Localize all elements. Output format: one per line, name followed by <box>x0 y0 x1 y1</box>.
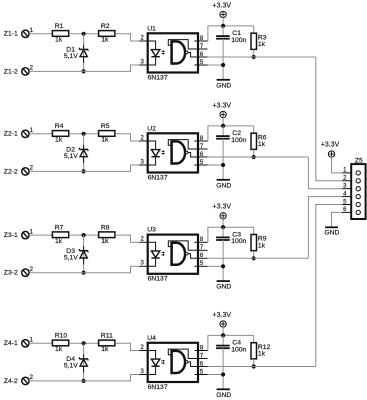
resistor R3 <box>251 26 267 57</box>
svg-text:+3.3V: +3.3V <box>213 204 232 211</box>
U1 pin 7 <box>198 44 208 50</box>
wire U4 pin 5 to GND net <box>208 374 224 376</box>
wire R2 to U1 pin 2 <box>115 34 139 41</box>
svg-text:Z5: Z5 <box>355 158 363 165</box>
Z5 pin 5 <box>342 199 360 206</box>
svg-text:5,1V: 5,1V <box>64 53 78 60</box>
junction GND net channel 1 <box>221 63 225 67</box>
junction D4/Z4-2 <box>82 379 86 383</box>
terminal Z2-2 <box>4 166 34 176</box>
U2 pin 2 <box>139 135 148 141</box>
svg-text:1k: 1k <box>258 351 266 358</box>
resistor R2 <box>99 23 115 44</box>
svg-text:+3.3V: +3.3V <box>213 102 232 109</box>
svg-text:100n: 100n <box>231 346 246 353</box>
svg-text:GND: GND <box>216 284 231 291</box>
wire R7 to R8 <box>69 234 99 236</box>
U4 internal LED <box>148 351 165 375</box>
svg-text:1: 1 <box>30 229 34 235</box>
wire output channel 2 <box>208 156 309 158</box>
svg-text:2: 2 <box>30 267 34 273</box>
wire channel 1 output to Z5 pin 2 <box>316 57 342 181</box>
terminal Z4-1 <box>4 338 34 348</box>
ground at Z5 <box>324 227 339 236</box>
wire D4 branch <box>83 343 85 381</box>
junction GND net channel 4 <box>221 372 225 376</box>
wire output channel 1 <box>208 56 316 58</box>
wire Z3-1 to R7 <box>29 234 52 236</box>
svg-text:R10: R10 <box>55 333 68 340</box>
+3.3V supply channel 3 <box>213 204 232 228</box>
terminal Z3-1 <box>4 229 34 239</box>
svg-text:Z3-1: Z3-1 <box>4 232 18 239</box>
wire channel 3 output to Z5 pin 4 <box>308 197 342 259</box>
resistor R4 <box>52 123 68 144</box>
svg-text:R8: R8 <box>101 225 110 232</box>
wire Z3-2 to U3 pin 3 <box>29 266 139 272</box>
connector Z5 body <box>351 158 365 219</box>
svg-text:1: 1 <box>30 28 34 34</box>
svg-text:+3.3V: +3.3V <box>213 2 232 9</box>
wire +3.3V rail channel 4 <box>208 335 254 350</box>
svg-text:1k: 1k <box>55 137 63 144</box>
svg-text:+3.3V: +3.3V <box>213 312 232 319</box>
wire +3.3V rail channel 2 <box>208 126 254 141</box>
svg-text:R4: R4 <box>55 123 64 130</box>
wire channel 2 output to Z5 pin 3 <box>308 157 342 189</box>
junction R6/output channel 2 <box>252 155 256 159</box>
svg-text:GND: GND <box>324 230 339 237</box>
svg-text:U2: U2 <box>147 125 156 132</box>
capacitor C1 <box>216 26 246 80</box>
U3 pin 5 <box>194 261 207 267</box>
wire D1 branch <box>83 34 85 72</box>
opto-coupler U3 body <box>147 227 198 283</box>
wire +3.3V rail channel 1 <box>208 26 254 41</box>
U4 pin 3 <box>139 369 148 375</box>
wire output channel 3 <box>208 257 309 259</box>
svg-text:Z4-2: Z4-2 <box>4 378 18 385</box>
svg-text:2: 2 <box>140 35 144 41</box>
opto-coupler U2 body <box>147 125 198 181</box>
Z5 pin 6 <box>342 207 360 214</box>
Z5 pin 4 <box>342 191 360 198</box>
U2 internal gate <box>168 140 198 164</box>
U4 pin 5 <box>194 369 207 375</box>
svg-text:2: 2 <box>140 135 144 141</box>
U3 pin 6 <box>198 253 208 259</box>
terminal Z3-2 <box>4 267 34 277</box>
zener diode D2 <box>64 145 88 163</box>
svg-text:1k: 1k <box>55 37 63 44</box>
svg-text:GND: GND <box>216 82 231 89</box>
U3 pin 2 <box>139 237 148 243</box>
U2 pin 8 <box>194 136 207 142</box>
U4 pin 8 <box>194 345 207 351</box>
opto-coupler U4 body <box>147 335 198 391</box>
svg-text:2: 2 <box>140 237 144 243</box>
+3.3V supply channel 4 <box>213 312 232 336</box>
svg-text:1k: 1k <box>55 346 63 353</box>
svg-text:Z2-2: Z2-2 <box>4 168 18 175</box>
terminal Z4-2 <box>4 375 34 385</box>
wire R4 to R5 <box>69 133 99 135</box>
wire D2 branch <box>83 134 85 172</box>
U2 pin 7 <box>198 144 208 150</box>
ground channel 3 <box>216 281 231 291</box>
junction D2/Z2-2 <box>82 169 86 173</box>
svg-text:5,1V: 5,1V <box>64 153 78 160</box>
U4 internal gate <box>168 349 198 373</box>
U3 pin 8 <box>194 237 207 243</box>
svg-text:3: 3 <box>140 261 144 267</box>
U1 internal gate <box>168 40 198 64</box>
svg-text:100n: 100n <box>231 137 246 144</box>
svg-text:GND: GND <box>216 182 231 189</box>
capacitor C4 <box>216 335 246 389</box>
junction +3.3V rail channel 3 <box>221 225 225 229</box>
svg-text:U4: U4 <box>147 335 156 342</box>
junction +3.3V rail channel 2 <box>221 124 225 128</box>
svg-text:2: 2 <box>30 66 34 72</box>
wire Z4-1 to R10 <box>29 342 52 344</box>
svg-text:6N137: 6N137 <box>148 174 168 181</box>
junction R9/output channel 3 <box>252 256 256 260</box>
svg-text:1k: 1k <box>258 141 266 148</box>
wire U3 pin 5 to GND net <box>208 265 224 267</box>
U3 pin 7 <box>198 245 208 251</box>
ground channel 2 <box>216 180 231 190</box>
junction R12/output channel 4 <box>252 364 256 368</box>
junction GND net channel 3 <box>221 264 225 268</box>
wire +3.3V to Z5 pin 1 <box>332 157 343 173</box>
U2 pin 5 <box>194 160 207 166</box>
wire channel 4 output to Z5 pin 5 <box>316 205 342 367</box>
wire +3.3V rail channel 3 <box>208 227 254 242</box>
svg-text:5,1V: 5,1V <box>64 363 78 370</box>
Z5 pin 3 <box>342 184 360 191</box>
+3.3V supply at Z5 <box>321 142 340 158</box>
resistor R9 <box>251 227 267 258</box>
opto-coupler U1 body <box>147 25 198 81</box>
wire Z5 pin 6 to ground <box>332 212 343 226</box>
terminal Z2-1 <box>4 128 34 138</box>
Z5 pin 2 <box>342 176 360 183</box>
svg-text:Z1-1: Z1-1 <box>4 31 18 38</box>
wire Z1-1 to R1 <box>29 33 52 35</box>
U1 pin 8 <box>194 36 207 42</box>
svg-text:6N137: 6N137 <box>148 276 168 283</box>
svg-text:1k: 1k <box>258 242 266 249</box>
resistor R1 <box>52 23 68 44</box>
svg-text:2: 2 <box>30 375 34 381</box>
wire Z2-2 to U2 pin 3 <box>29 165 139 171</box>
svg-text:1: 1 <box>30 128 34 134</box>
U3 internal LED <box>148 242 165 266</box>
resistor R7 <box>52 225 68 246</box>
U1 internal LED <box>148 41 165 65</box>
svg-text:5,1V: 5,1V <box>64 254 78 261</box>
U4 pin 6 <box>198 361 208 367</box>
U4 pin 7 <box>198 353 208 359</box>
wire R11 to U4 pin 2 <box>115 343 139 350</box>
junction +3.3V rail channel 1 <box>221 24 225 28</box>
resistor R11 <box>99 333 115 354</box>
capacitor C2 <box>216 126 246 179</box>
U3 internal gate <box>168 241 198 265</box>
wire Z1-2 to U1 pin 3 <box>29 65 139 71</box>
junction D1/Z1-2 <box>82 69 86 73</box>
svg-text:U1: U1 <box>147 25 156 32</box>
resistor R5 <box>99 123 115 144</box>
U1 pin 5 <box>194 60 207 66</box>
terminal Z1-2 <box>4 66 34 76</box>
wire U1 pin 5 to GND net <box>208 64 224 66</box>
svg-text:2: 2 <box>140 345 144 351</box>
resistor R6 <box>251 126 267 157</box>
junction D3/Z3-2 <box>82 271 86 275</box>
wire R8 to U3 pin 2 <box>115 235 139 242</box>
svg-text:Z3-2: Z3-2 <box>4 270 18 277</box>
junction R10/R11/D4 <box>82 341 86 345</box>
wire output channel 4 <box>208 366 316 368</box>
capacitor C3 <box>216 227 246 281</box>
svg-text:Z4-1: Z4-1 <box>4 340 18 347</box>
svg-text:100n: 100n <box>231 238 246 245</box>
wire Z4-2 to U4 pin 3 <box>29 375 139 381</box>
svg-text:R2: R2 <box>101 23 110 30</box>
svg-text:1k: 1k <box>101 238 109 245</box>
junction R1/R2/D1 <box>82 32 86 36</box>
U4 pin 2 <box>139 345 148 351</box>
U1 pin 3 <box>139 59 148 65</box>
wire U2 pin 5 to GND net <box>208 164 224 166</box>
svg-text:1k: 1k <box>101 137 109 144</box>
junction R7/R8/D3 <box>82 233 86 237</box>
resistor R8 <box>99 225 115 246</box>
resistor R10 <box>52 333 68 354</box>
+3.3V supply channel 1 <box>213 2 232 26</box>
svg-text:Z1-2: Z1-2 <box>4 68 18 75</box>
svg-text:GND: GND <box>216 392 231 399</box>
zener diode D4 <box>64 354 88 372</box>
terminal Z1-1 <box>4 28 34 38</box>
svg-text:R11: R11 <box>101 333 113 340</box>
zener diode D3 <box>64 246 88 264</box>
svg-text:Z2-1: Z2-1 <box>4 131 18 138</box>
svg-text:U3: U3 <box>147 227 156 234</box>
U1 pin 2 <box>139 35 148 41</box>
wire R1 to R2 <box>69 33 99 35</box>
svg-text:1: 1 <box>30 338 34 344</box>
svg-text:R7: R7 <box>55 225 64 232</box>
U1 pin 6 <box>198 52 208 58</box>
zener diode D1 <box>64 45 88 63</box>
junction GND net channel 2 <box>221 163 225 167</box>
junction R3/output channel 1 <box>252 55 256 59</box>
Z5 pin 1 <box>342 168 360 175</box>
svg-text:3: 3 <box>140 369 144 375</box>
svg-text:1k: 1k <box>101 346 109 353</box>
wire D3 branch <box>83 235 85 273</box>
svg-text:3: 3 <box>140 59 144 65</box>
svg-text:1k: 1k <box>101 37 109 44</box>
junction R4/R5/D2 <box>82 132 86 136</box>
svg-text:R1: R1 <box>55 23 64 30</box>
svg-text:1k: 1k <box>258 41 266 48</box>
svg-text:100n: 100n <box>231 37 246 44</box>
svg-text:1k: 1k <box>55 238 63 245</box>
svg-text:+3.3V: +3.3V <box>321 142 340 149</box>
ground channel 4 <box>216 389 231 399</box>
ground channel 1 <box>216 80 231 90</box>
+3.3V supply channel 2 <box>213 102 232 126</box>
svg-text:2: 2 <box>30 166 34 172</box>
U2 pin 3 <box>139 159 148 165</box>
svg-text:6N137: 6N137 <box>148 384 168 391</box>
wire R5 to U2 pin 2 <box>115 134 139 141</box>
wire Z2-1 to R4 <box>29 133 52 135</box>
junction +3.3V rail channel 4 <box>221 333 225 337</box>
U2 internal LED <box>148 141 165 165</box>
U3 pin 3 <box>139 261 148 267</box>
svg-text:R5: R5 <box>101 123 110 130</box>
svg-text:6N137: 6N137 <box>148 74 168 81</box>
wire R10 to R11 <box>69 342 99 344</box>
U2 pin 6 <box>198 152 208 158</box>
resistor R12 <box>251 335 271 366</box>
svg-text:3: 3 <box>140 159 144 165</box>
